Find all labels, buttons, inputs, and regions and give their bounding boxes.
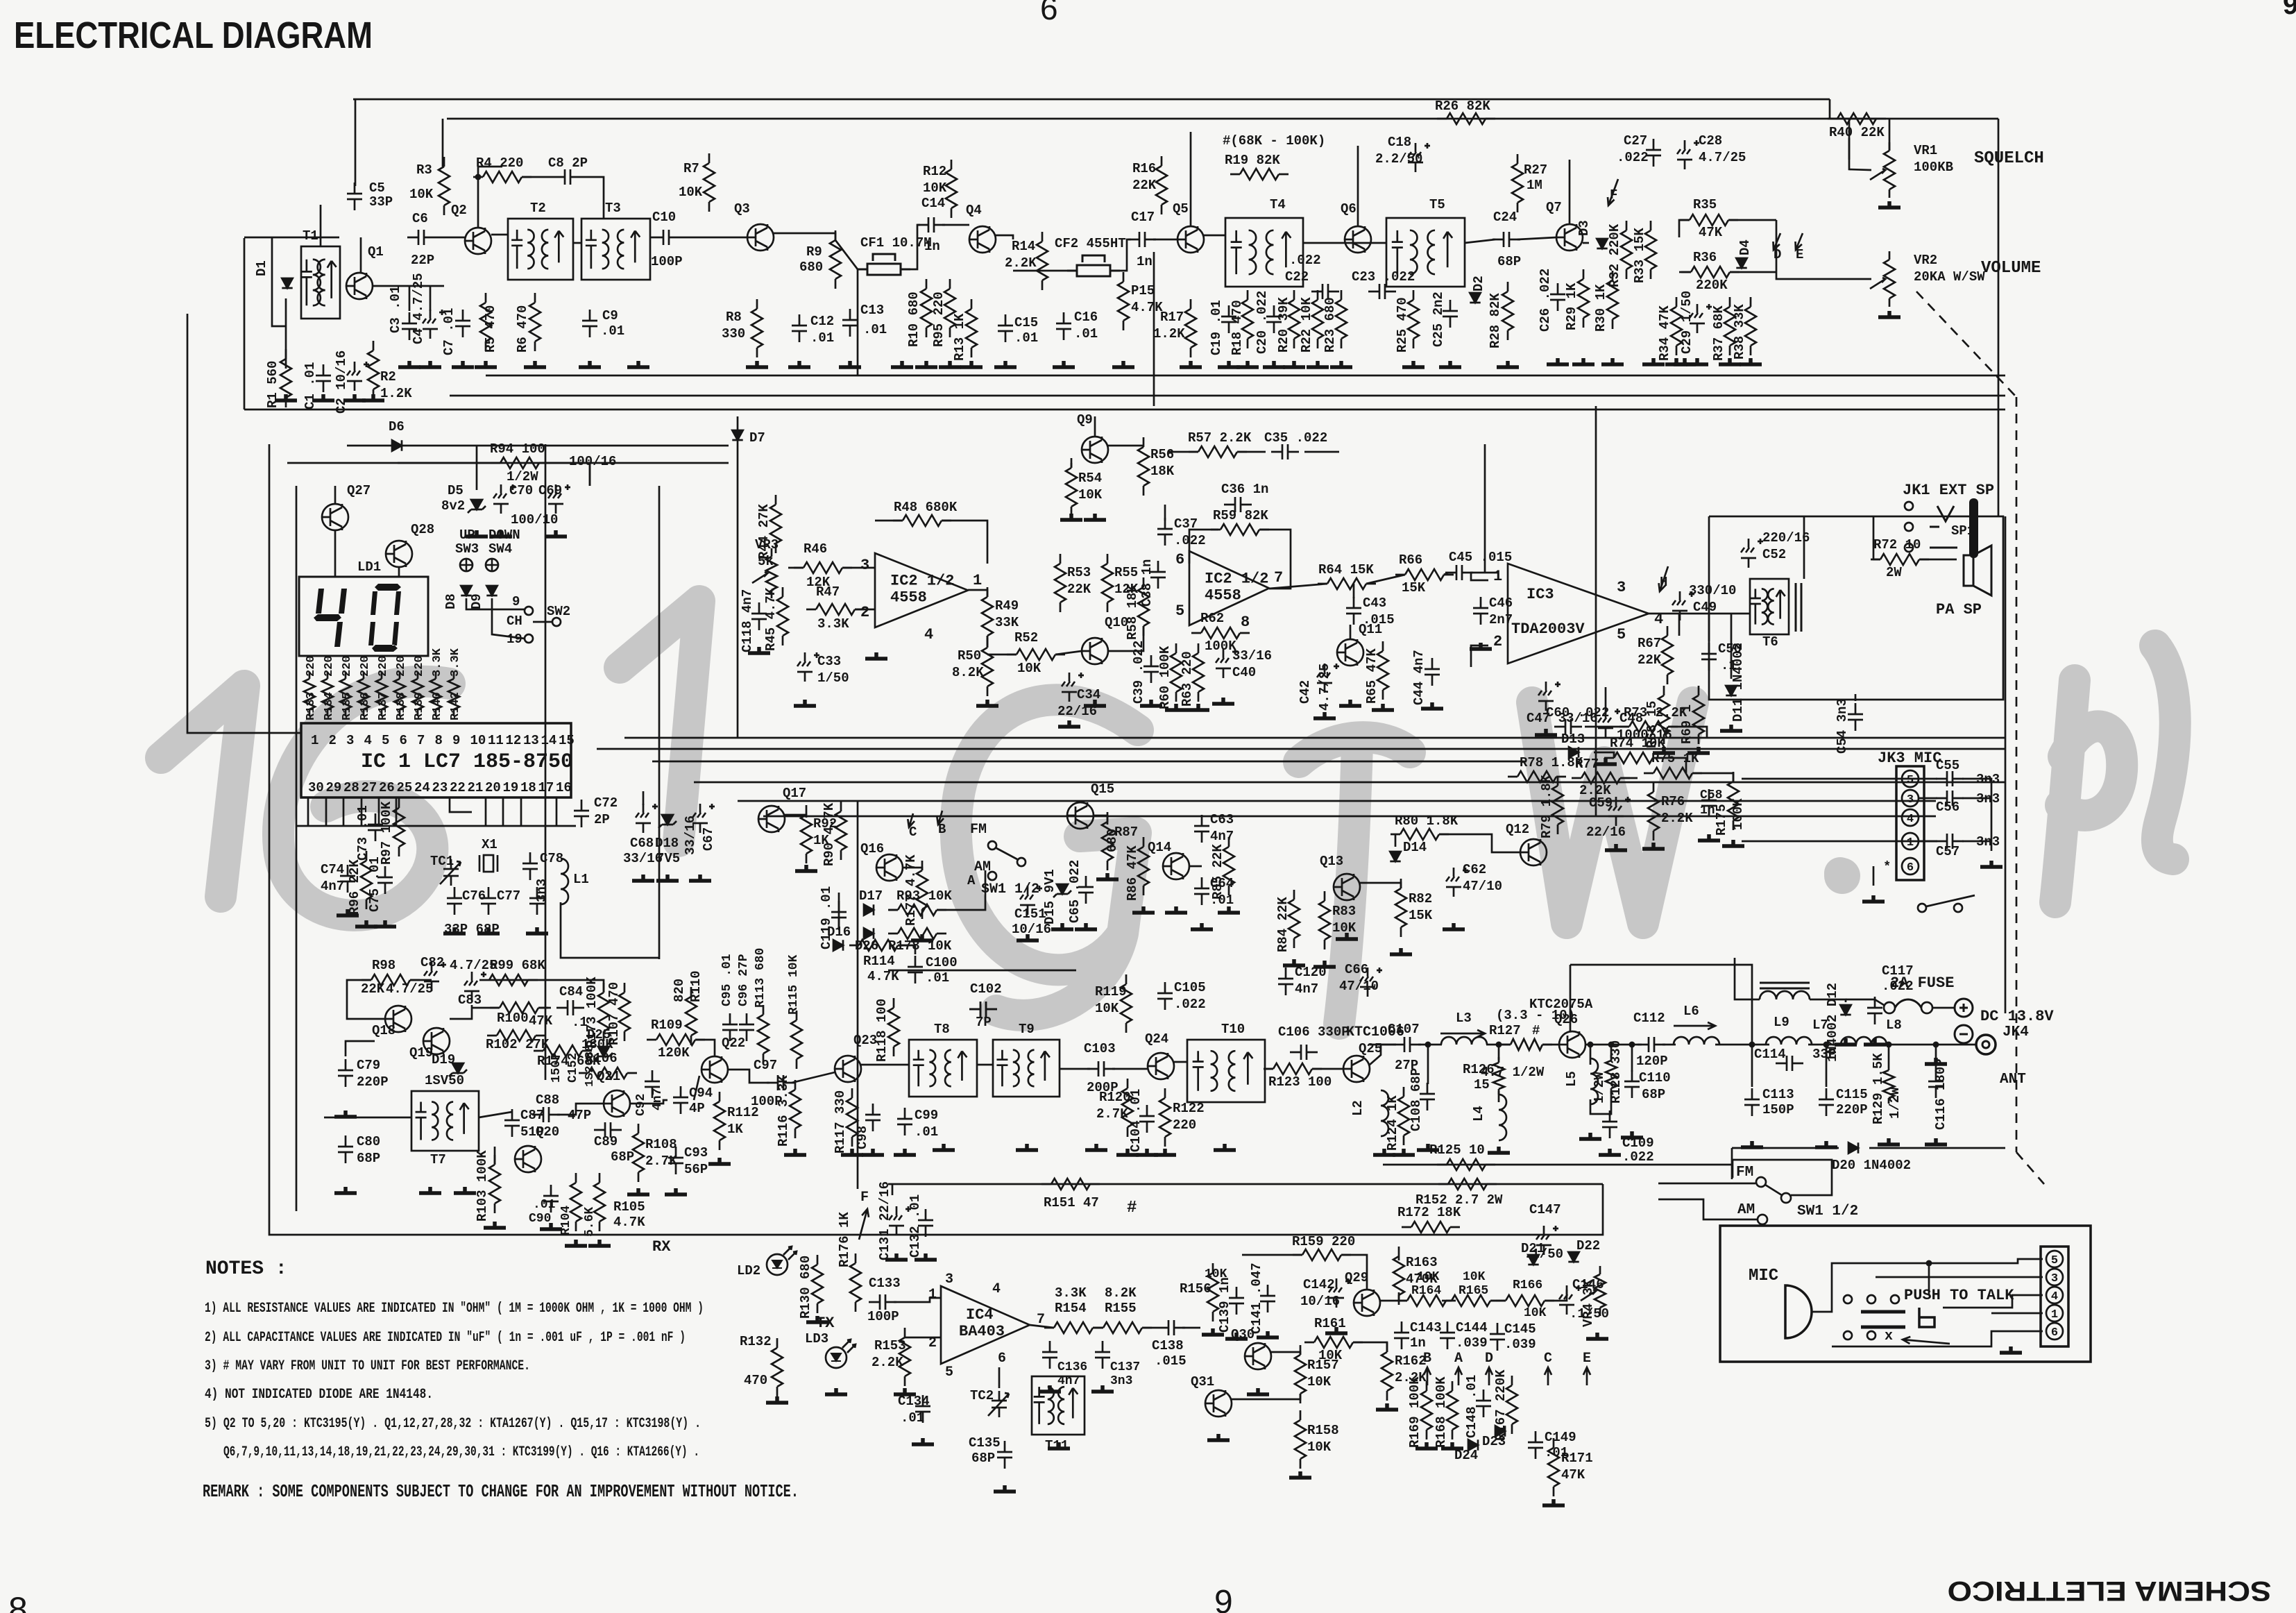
svg-text:C26 .022: C26 .022	[1538, 269, 1553, 332]
svg-text:R78 1.8K: R78 1.8K	[1520, 755, 1583, 770]
capacitor C95	[722, 1013, 738, 1041]
wire	[1919, 841, 1937, 843]
capacitor C6	[407, 230, 435, 245]
svg-text:C55: C55	[1936, 758, 1959, 773]
diode D4	[1736, 258, 1746, 268]
svg-text:Q14: Q14	[1148, 840, 1171, 855]
svg-text:T9: T9	[1019, 1022, 1035, 1037]
resistor R26	[1437, 113, 1495, 124]
wire PLL box left/bottom	[269, 444, 763, 1235]
ground	[865, 652, 887, 659]
svg-text:Q6,7,9,10,11,13,14,18,19,21,22: Q6,7,9,10,11,13,14,18,19,21,22,23,24,29,…	[223, 1444, 699, 1460]
capacitor C44	[1425, 658, 1440, 686]
wire IC3 to T6	[1679, 613, 1750, 615]
arrow E	[1796, 233, 1803, 250]
svg-text:1: 1	[311, 733, 318, 748]
svg-text:C2 10/16: C2 10/16	[334, 351, 349, 414]
resistor R112	[714, 1092, 725, 1150]
svg-text:22/16: 22/16	[1586, 825, 1626, 840]
wire R114 to C100	[898, 945, 915, 954]
svg-text:MIC: MIC	[1749, 1267, 1778, 1285]
svg-text:C10: C10	[652, 210, 676, 225]
wire C6 to Q2	[435, 237, 465, 239]
junction	[1926, 1260, 1932, 1267]
svg-text:220K: 220K	[1696, 278, 1728, 293]
resistor R173	[598, 983, 609, 1041]
switch contact JK1 sleeve	[1905, 543, 1913, 552]
transistor Q11	[1337, 639, 1363, 666]
resistor R9	[830, 230, 841, 289]
svg-text:R2: R2	[380, 369, 396, 385]
wire	[494, 1147, 496, 1165]
svg-text:E: E	[1583, 1351, 1591, 1367]
svg-text:C98: C98	[855, 1126, 870, 1149]
wire R94 left link	[398, 462, 500, 464]
wire T1 row	[272, 237, 339, 239]
svg-text:10K: 10K	[923, 180, 947, 196]
svg-text:220: 220	[305, 655, 318, 677]
wire Q27 top	[334, 486, 337, 504]
ground	[1039, 1385, 1061, 1392]
svg-text:15: 15	[559, 733, 575, 748]
wire L5 R128 join	[1590, 1091, 1611, 1114]
wire PLL inner vertical	[296, 486, 298, 1211]
svg-text:3: 3	[346, 733, 354, 748]
resistor R156	[1207, 1263, 1218, 1321]
resistor R166	[1496, 1295, 1554, 1306]
capacitor C1	[316, 364, 331, 392]
wire to pin 6	[1832, 1331, 2043, 1346]
ground	[1878, 1138, 1900, 1145]
resistor R177	[917, 861, 928, 919]
svg-text:R175: R175	[1714, 804, 1729, 836]
svg-text:D2: D2	[1471, 276, 1486, 292]
switch contact contact	[1867, 1331, 1876, 1340]
transistor Q15	[1067, 802, 1094, 829]
svg-text:R99 68K: R99 68K	[490, 958, 545, 973]
transformer T3	[581, 219, 650, 280]
capacitor C5	[347, 183, 362, 210]
svg-text:R73 2.2K: R73 2.2K	[1624, 705, 1687, 720]
crystal X1	[484, 855, 493, 872]
svg-text:Q15: Q15	[1091, 782, 1114, 797]
svg-text:IC3: IC3	[1527, 586, 1554, 603]
wire	[1406, 1300, 1409, 1302]
svg-text:220P: 220P	[1836, 1102, 1868, 1117]
transistor Q23	[835, 1056, 861, 1082]
svg-text:SQUELCH: SQUELCH	[1974, 149, 2044, 168]
capacitor C82	[424, 962, 446, 991]
svg-text:.01: .01	[533, 1198, 556, 1212]
svg-text:220P: 220P	[357, 1074, 389, 1090]
arrow D	[1486, 1367, 1493, 1385]
inductor L5	[1590, 1058, 1598, 1104]
wire	[450, 797, 472, 812]
svg-text:14: 14	[541, 733, 557, 748]
svg-text:CF2 455HT: CF2 455HT	[1055, 236, 1126, 251]
svg-text:*: *	[1883, 859, 1891, 875]
svg-text:R132: R132	[740, 1334, 772, 1349]
ground	[1187, 704, 1209, 710]
ground	[1225, 1333, 1248, 1339]
ground	[275, 394, 297, 400]
ground	[1154, 1149, 1176, 1155]
terminal DC plus	[1955, 999, 1973, 1017]
diode D17	[864, 904, 874, 915]
wire	[1384, 1140, 1385, 1165]
capacitor C115	[1819, 1088, 1834, 1116]
resistor R47	[806, 604, 865, 615]
ground	[419, 361, 441, 367]
capacitor C18	[1408, 143, 1430, 172]
wire	[1212, 1273, 1214, 1312]
resistor R29	[1578, 269, 1589, 328]
wire R3 top drop	[442, 119, 444, 167]
resistor R93	[888, 904, 946, 915]
arrow H	[1659, 566, 1668, 591]
svg-text:C69: C69	[538, 483, 562, 498]
wire SW1 lever 2	[1765, 1185, 1782, 1195]
svg-text:C80: C80	[357, 1134, 380, 1149]
svg-text:T4: T4	[1270, 197, 1286, 212]
svg-text:TC1: TC1	[430, 854, 454, 869]
wire	[1801, 1063, 1826, 1064]
wire R52 to Q10	[1055, 651, 1082, 655]
svg-text:10K: 10K	[1332, 920, 1357, 936]
svg-text:D9: D9	[469, 593, 484, 609]
capacitor C145	[1490, 1323, 1505, 1351]
svg-text:26: 26	[379, 780, 395, 795]
svg-text:Q25: Q25	[1359, 1041, 1382, 1056]
resistor R72	[1871, 554, 1929, 565]
wire C45 out	[1470, 572, 1499, 574]
wire C55 line	[1742, 778, 1937, 780]
wire C79 top	[346, 1041, 375, 1056]
resistor R97	[393, 798, 405, 856]
svg-text:D: D	[1485, 1351, 1493, 1367]
wire	[399, 656, 401, 657]
wire	[327, 656, 329, 657]
svg-text:.039: .039	[1456, 1335, 1488, 1351]
svg-text:330/10: 330/10	[1689, 583, 1736, 598]
svg-text:R114: R114	[863, 954, 895, 969]
svg-text:R140: R140	[431, 692, 444, 720]
capacitor C35	[1271, 444, 1299, 459]
svg-text:T5: T5	[1429, 197, 1445, 212]
svg-text:10K: 10K	[1524, 1306, 1547, 1320]
resistor R30	[1607, 271, 1618, 329]
svg-text:R154: R154	[1055, 1301, 1087, 1316]
svg-text:Q1: Q1	[368, 244, 384, 260]
svg-text:R6 470: R6 470	[515, 305, 530, 353]
svg-text:3: 3	[1907, 793, 1914, 806]
svg-text:C44 4n7: C44 4n7	[1411, 650, 1427, 705]
svg-text:C78: C78	[540, 851, 563, 866]
ground	[960, 361, 983, 367]
svg-text:Q24: Q24	[1145, 1031, 1168, 1047]
capacitor C8	[554, 169, 581, 185]
wire Q21 out	[630, 1084, 652, 1099]
wire L7-L8	[1808, 1044, 1844, 1046]
ground	[1864, 1038, 1886, 1045]
transistor Q3	[747, 224, 774, 251]
capacitor C98	[865, 1104, 881, 1131]
wire R40 drop	[1848, 119, 1851, 160]
ground	[766, 1396, 788, 1403]
ground	[627, 361, 649, 367]
capacitor C151	[1020, 886, 1042, 915]
wire R153 to IC4	[905, 1326, 941, 1338]
svg-text:7: 7	[417, 733, 425, 748]
ground	[1140, 700, 1162, 706]
resistor R87	[1102, 812, 1113, 870]
capacitor C110	[1624, 1070, 1640, 1098]
svg-text:33K: 33K	[995, 615, 1019, 630]
diode D11	[1726, 686, 1736, 695]
diode D6	[392, 440, 402, 450]
svg-text:7: 7	[1274, 569, 1283, 586]
ground	[1218, 906, 1240, 913]
capacitor C134	[915, 1395, 930, 1423]
svg-text:SW2: SW2	[547, 604, 570, 619]
svg-text:SP1: SP1	[1951, 523, 1975, 539]
svg-text:C142: C142	[1303, 1277, 1335, 1292]
svg-text:47K: 47K	[1561, 1467, 1585, 1483]
svg-text:2P: 2P	[594, 812, 610, 827]
svg-text:R19 82K: R19 82K	[1225, 153, 1280, 168]
wire	[892, 1184, 894, 1195]
transistor Q21	[604, 1090, 630, 1117]
svg-text:SW1 1/2: SW1 1/2	[981, 881, 1039, 897]
svg-text:Q6: Q6	[1341, 201, 1357, 217]
svg-text:C8 2P: C8 2P	[548, 155, 588, 171]
wire	[1353, 584, 1355, 598]
svg-text:C17: C17	[1131, 210, 1155, 225]
capacitor C102b	[969, 1002, 997, 1017]
svg-text:330: 330	[722, 326, 745, 341]
ground	[1402, 361, 1425, 367]
svg-text:8.2K: 8.2K	[952, 665, 984, 680]
resistor R27	[1512, 154, 1523, 212]
svg-text:R157: R157	[1307, 1358, 1339, 1373]
svg-text:C131 22/16: C131 22/16	[877, 1181, 892, 1260]
resistor R46	[794, 562, 852, 573]
wire fb left	[875, 520, 903, 522]
wire Q5 to T4	[1204, 235, 1225, 237]
svg-text:C97: C97	[754, 1058, 777, 1073]
wire R126 to L4	[1498, 1091, 1500, 1102]
svg-text:R54: R54	[1078, 471, 1102, 486]
resistor R124	[1398, 1087, 1409, 1145]
svg-text:C93: C93	[684, 1145, 708, 1160]
decorative watermark	[161, 601, 2175, 1024]
junction	[1425, 1042, 1431, 1048]
svg-text:Q4: Q4	[966, 203, 982, 218]
svg-text:C133: C133	[869, 1276, 901, 1291]
wire	[320, 237, 322, 246]
resistor R98	[362, 974, 420, 986]
svg-text:C15: C15	[1014, 315, 1038, 330]
resistor R60	[1171, 643, 1182, 702]
svg-text:R65 47K: R65 47K	[1364, 648, 1379, 704]
svg-text:RX: RX	[652, 1238, 671, 1256]
svg-text:15K: 15K	[1402, 580, 1426, 596]
svg-text:R97 100K: R97 100K	[379, 801, 394, 865]
ground	[374, 920, 396, 927]
svg-text:#: #	[1532, 1023, 1540, 1038]
wire IC3 in2	[1471, 645, 1488, 667]
capacitor C58	[1701, 789, 1717, 817]
diode D14	[1390, 852, 1400, 861]
wire C103 to Q24	[1112, 1068, 1148, 1070]
ground	[1236, 361, 1259, 367]
svg-text:C147: C147	[1529, 1202, 1561, 1217]
wire	[1751, 1055, 1753, 1087]
svg-text:IC2 1/2: IC2 1/2	[1205, 571, 1268, 588]
svg-text:16: 16	[556, 780, 572, 795]
resistor R136	[358, 672, 369, 716]
wire C35 out	[1304, 451, 1339, 453]
svg-text:4.7/25: 4.7/25	[1699, 150, 1746, 165]
resistor R128	[1606, 1055, 1617, 1094]
zener diode D25	[595, 1047, 613, 1060]
wire C3 drop	[409, 286, 411, 311]
ground	[1878, 201, 1900, 208]
svg-text:C112: C112	[1633, 1011, 1665, 1026]
resistor R6	[529, 293, 541, 351]
wire R36 right	[1730, 271, 1776, 273]
wire L5 top	[1590, 1045, 1592, 1065]
wire R161 to R162	[1353, 1342, 1387, 1352]
svg-text:4.7K: 4.7K	[613, 1215, 645, 1230]
capacitor C28	[1677, 140, 1699, 169]
svg-text:220: 220	[323, 655, 336, 677]
svg-text:C56: C56	[1936, 800, 1959, 815]
resistor R77	[1572, 772, 1630, 784]
wire far-left vertical	[187, 314, 301, 733]
svg-text:C52: C52	[1762, 547, 1786, 562]
wire R155-C138	[1142, 1327, 1157, 1329]
wire C116 top	[1935, 1045, 1937, 1072]
ground	[1048, 1442, 1070, 1449]
svg-text:2.7K: 2.7K	[645, 1154, 677, 1169]
display LD1	[299, 577, 428, 656]
svg-text:R23 680: R23 680	[1323, 297, 1338, 353]
svg-text:X1: X1	[482, 837, 498, 852]
wire Q28 to LD1	[398, 567, 400, 577]
svg-text:5.6K: 5.6K	[583, 1207, 597, 1237]
svg-text:C68: C68	[630, 836, 654, 851]
svg-text:C19 .01: C19 .01	[1209, 300, 1224, 355]
wire Q25 to C107	[1370, 1044, 1396, 1046]
svg-text:2.2/50: 2.2/50	[1375, 151, 1422, 167]
capacitor C29	[1690, 304, 1712, 333]
svg-text:A: A	[967, 873, 976, 888]
svg-text:18K: 18K	[1150, 464, 1175, 479]
capacitor C133	[869, 1294, 896, 1310]
wire L1 down	[561, 902, 659, 958]
pin MIC-1	[2046, 1305, 2063, 1321]
wire R126 top	[1498, 1045, 1500, 1060]
wire C114 left leg	[1751, 1072, 1753, 1087]
ground	[912, 1438, 934, 1444]
wire	[694, 1076, 699, 1100]
ground	[1547, 358, 1569, 364]
ground	[915, 1253, 937, 1260]
ground	[1925, 1058, 1947, 1064]
svg-text:C136: C136	[1057, 1360, 1087, 1374]
resistor R44	[770, 495, 781, 553]
capacitor C138	[1157, 1320, 1185, 1335]
ground	[1421, 702, 1443, 709]
capacitor C139	[1229, 1287, 1244, 1315]
svg-text:100KB: 100KB	[1914, 160, 1953, 175]
svg-text:4: 4	[992, 1281, 1001, 1297]
wire Q3 col drop	[857, 269, 859, 375]
svg-text:C65 .022: C65 .022	[1067, 860, 1082, 923]
svg-text:D8: D8	[443, 593, 459, 609]
svg-text:R5 470: R5 470	[483, 305, 498, 353]
resistor R167	[1506, 1376, 1517, 1434]
svg-text:47K: 47K	[1699, 225, 1723, 240]
wire right edge long column	[2005, 516, 2007, 1013]
wire mid bus 2	[450, 395, 2005, 397]
svg-text:D3: D3	[1576, 220, 1592, 236]
resistor R135	[340, 672, 351, 716]
transistor Q14	[1163, 853, 1189, 879]
wire	[1653, 758, 1686, 773]
capacitor C76	[447, 887, 462, 915]
op-amp IC4	[941, 1286, 1030, 1364]
ground	[1085, 1144, 1107, 1150]
wire R128 top	[1610, 1045, 1613, 1058]
capacitor C37	[1157, 518, 1173, 546]
svg-text:15K: 15K	[1409, 908, 1433, 923]
svg-text:TC2: TC2	[970, 1388, 994, 1403]
svg-text:Q28: Q28	[411, 522, 434, 537]
svg-text:R7: R7	[683, 161, 699, 176]
ground	[665, 1188, 687, 1194]
svg-text:220: 220	[1173, 1117, 1196, 1133]
switch contact SW2b	[552, 618, 561, 626]
junction	[1496, 1042, 1502, 1048]
svg-text:220: 220	[341, 655, 354, 677]
switch contact fuse b	[1921, 1002, 1932, 1013]
resistor R67	[1662, 626, 1673, 684]
wire	[1620, 777, 1638, 779]
switch contact SW a	[1918, 904, 1926, 912]
svg-text:9: 9	[2283, 0, 2296, 20]
capacitor C105	[1157, 982, 1173, 1010]
svg-text:Q3: Q3	[734, 201, 750, 217]
svg-text:.01: .01	[926, 970, 949, 986]
ground	[1535, 729, 1557, 735]
resistor R119	[1121, 974, 1132, 1033]
svg-text:C22: C22	[1285, 269, 1309, 285]
svg-text:10K: 10K	[1307, 1439, 1332, 1455]
svg-text:C76: C76	[462, 888, 486, 904]
wire C8 down	[581, 177, 604, 219]
transformer T10	[1187, 1040, 1265, 1102]
svg-text:R4 220: R4 220	[476, 155, 523, 171]
wire Q17 out	[785, 815, 806, 818]
resistor R127	[1501, 1039, 1552, 1050]
resistor R104	[570, 1173, 581, 1231]
svg-text:25: 25	[397, 780, 413, 795]
svg-text:R119: R119	[1095, 984, 1127, 999]
svg-text:C94: C94	[689, 1086, 713, 1101]
svg-text:T6: T6	[1762, 634, 1778, 650]
